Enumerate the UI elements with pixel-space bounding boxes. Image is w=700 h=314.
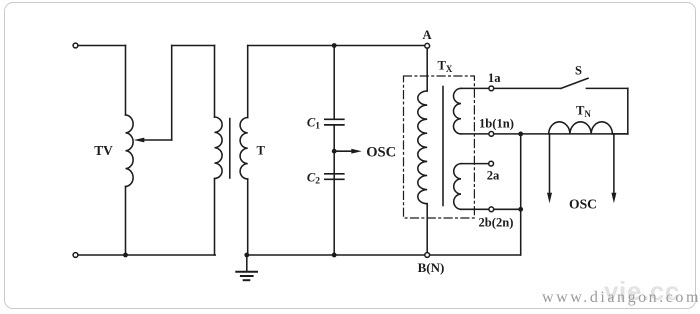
svg-text:C1: C1	[307, 116, 320, 132]
svg-text:S: S	[575, 64, 582, 78]
svg-text:A: A	[422, 28, 431, 42]
svg-text:OSC: OSC	[366, 144, 396, 160]
svg-text:2b(2n): 2b(2n)	[479, 216, 514, 230]
svg-text:2a: 2a	[487, 169, 500, 183]
svg-text:OSC: OSC	[569, 197, 597, 212]
svg-text:1a: 1a	[488, 71, 501, 85]
svg-text:1b(1n): 1b(1n)	[479, 117, 514, 131]
svg-text:TV: TV	[94, 143, 113, 158]
svg-text:TX: TX	[438, 59, 453, 75]
svg-text:B(N): B(N)	[418, 260, 445, 275]
svg-text:C2: C2	[307, 171, 320, 187]
svg-text:T: T	[257, 144, 266, 158]
svg-text:TN: TN	[576, 104, 591, 120]
